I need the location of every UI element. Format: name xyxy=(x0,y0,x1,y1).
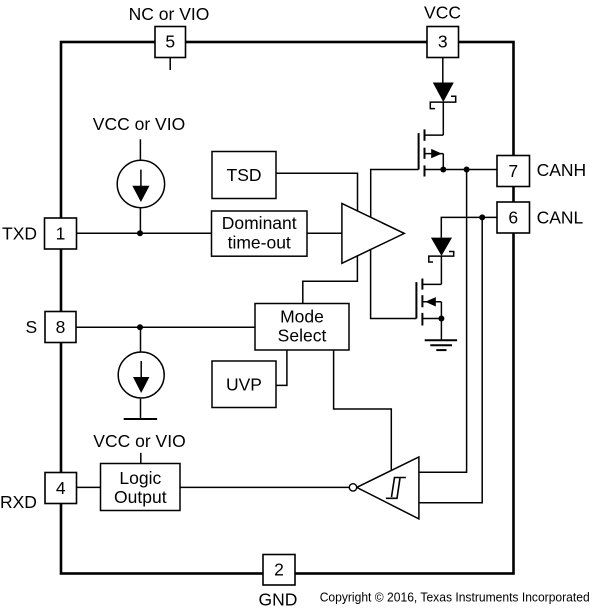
wire driver to low-side gate xyxy=(371,250,417,319)
pin 7 box xyxy=(497,156,530,187)
wire current source I1 bottom lead xyxy=(139,208,141,234)
wire TXD to Dominant time-out xyxy=(77,232,212,234)
svg-text:S: S xyxy=(26,317,38,337)
current source I2 xyxy=(118,352,164,398)
wire Dominant time-out to driver xyxy=(307,232,342,234)
wire TSD to driver xyxy=(276,173,358,212)
svg-text:Select: Select xyxy=(278,326,327,346)
svg-text:UVP: UVP xyxy=(226,375,262,395)
pin 5 box xyxy=(155,27,186,58)
ground bar under I2 xyxy=(124,418,157,420)
wire driver to Mode Select xyxy=(303,256,358,303)
receiver schmitt trigger xyxy=(349,457,419,519)
wire CANH sense to receiver xyxy=(419,170,467,473)
wire current source I1 top lead xyxy=(139,139,141,160)
block UVP xyxy=(212,361,276,408)
svg-text:GND: GND xyxy=(259,590,298,610)
svg-text:2: 2 xyxy=(274,560,284,580)
node CANH junction xyxy=(464,167,470,173)
wire VCC pin 3 to TVS D1 xyxy=(442,58,444,83)
node CANL junction xyxy=(479,214,485,220)
svg-text:5: 5 xyxy=(165,32,175,52)
node Q2 source junction xyxy=(438,316,444,322)
transistor Q2 low-side MOSFET xyxy=(416,279,441,326)
svg-text:NC or VIO: NC or VIO xyxy=(129,4,210,24)
svg-text:time-out: time-out xyxy=(228,232,291,252)
svg-text:TXD: TXD xyxy=(2,224,37,244)
TVS diode D2 xyxy=(429,238,454,262)
wire receiver to Logic Output xyxy=(180,486,349,488)
pin 1 box xyxy=(45,218,77,249)
wire UVP to Mode Select xyxy=(276,350,287,385)
node Q1 body-source junction xyxy=(440,167,446,173)
wire pin 5 NC stub xyxy=(169,58,171,71)
svg-text:VCC: VCC xyxy=(424,3,461,23)
wire driver to high-side gate xyxy=(371,170,419,218)
pin 8 box xyxy=(45,312,76,343)
wire S pin to Mode Select xyxy=(76,326,255,328)
wire VCC or VIO stub to Logic Output xyxy=(140,453,142,464)
svg-text:1: 1 xyxy=(56,224,66,244)
pin 2 box xyxy=(263,555,295,586)
svg-text:7: 7 xyxy=(508,161,518,181)
transistor Q1 high-side MOSFET xyxy=(419,129,444,176)
wire Q2 source to ground xyxy=(440,319,442,341)
pin 4 box xyxy=(45,473,77,504)
IC boundary box xyxy=(61,42,514,574)
wire CANL horizontal to pin 6 xyxy=(441,217,497,237)
svg-text:TSD: TSD xyxy=(227,165,262,185)
block Dominant time-out xyxy=(212,211,308,256)
wire TVS D1 to Q1 drain xyxy=(442,102,444,135)
pin 6 box xyxy=(497,202,530,233)
svg-text:Logic: Logic xyxy=(119,468,161,488)
TVS diode D1 xyxy=(430,83,455,109)
node TXD junction xyxy=(137,230,143,236)
wire Q1 source to CANH pin xyxy=(425,169,498,171)
svg-text:VCC or VIO: VCC or VIO xyxy=(93,114,185,134)
op-amp U1 driver triangle xyxy=(342,204,404,264)
svg-text:Dominant: Dominant xyxy=(222,213,297,233)
block TSD xyxy=(212,152,276,199)
wire current source I2 bottom lead xyxy=(140,399,142,419)
svg-text:3: 3 xyxy=(438,32,448,52)
svg-text:CANL: CANL xyxy=(537,208,584,228)
svg-text:4: 4 xyxy=(56,478,66,498)
block Mode Select xyxy=(255,304,349,351)
ground xyxy=(425,340,457,350)
svg-text:8: 8 xyxy=(56,317,66,337)
wire TVS D2 to Q2 drain xyxy=(440,256,442,284)
current source I1 xyxy=(117,160,164,207)
svg-text:Mode: Mode xyxy=(280,306,324,326)
svg-text:RXD: RXD xyxy=(0,492,37,512)
pin 3 box xyxy=(427,27,459,58)
node S junction xyxy=(137,324,143,330)
svg-text:6: 6 xyxy=(508,207,518,227)
block Logic Output xyxy=(101,464,181,511)
wire current source I2 top lead xyxy=(140,327,142,352)
svg-text:Output: Output xyxy=(114,487,167,507)
wire Logic Output to RXD pin xyxy=(77,486,101,488)
wire CANL sense to receiver xyxy=(419,217,482,502)
svg-text:CANH: CANH xyxy=(537,160,587,180)
svg-text:Copyright © 2016, Texas Instru: Copyright © 2016, Texas Instruments Inco… xyxy=(320,590,590,605)
wire Mode Select to receiver enable xyxy=(334,350,392,471)
svg-text:VCC or VIO: VCC or VIO xyxy=(93,431,185,451)
